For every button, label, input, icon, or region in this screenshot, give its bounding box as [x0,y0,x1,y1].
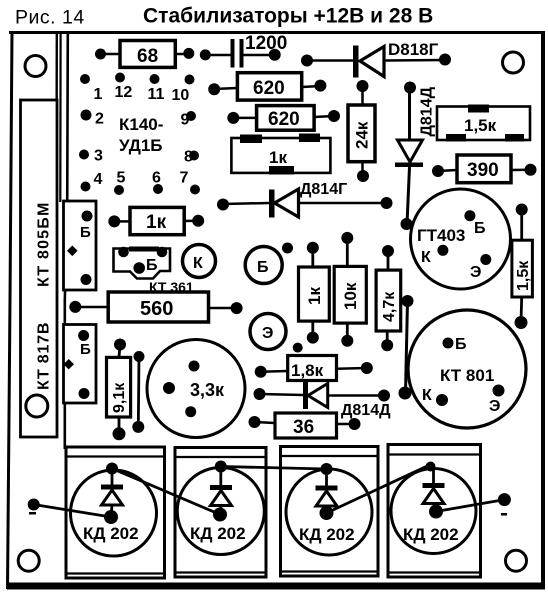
resistor 620 (lower) [227,106,340,131]
resistor 1.5k (top right, pad style) [437,105,530,142]
svg-text:Рис. 14: Рис. 14 [15,7,85,29]
svg-text:9: 9 [181,112,190,129]
node E circle [250,314,286,350]
mounting hole top-right [503,52,524,73]
svg-text:10к: 10к [341,282,360,310]
svg-text:6: 6 [152,170,161,187]
resistor 390 [432,155,537,183]
svg-text:Б: Б [474,220,486,237]
svg-text:1: 1 [94,86,103,103]
node dot above 1.8k [293,343,303,353]
resistor 68 [95,41,211,68]
rectifier block D2 [175,448,266,578]
svg-text:Б: Б [455,336,467,353]
svg-text:24к: 24к [353,121,372,149]
svg-text:Стабилизаторы +12В и 28 В: Стабилизаторы +12В и 28 В [143,5,433,28]
pad rectangle B2 (base pad of KT817) [63,325,96,404]
resistor 1k (left) [108,207,204,234]
transistor GT403 [411,189,511,289]
svg-text:3: 3 [94,148,103,165]
svg-text:КД 202: КД 202 [190,524,246,543]
transistor KT805BM / KT817V body outline [21,100,58,437]
svg-text:Э: Э [470,264,481,281]
svg-text:К: К [422,387,432,404]
svg-text:Б: Б [146,257,158,274]
svg-text:68: 68 [137,46,158,67]
svg-text:10: 10 [172,87,190,104]
resistor 1k vertical [299,242,330,344]
diode D814G [217,181,393,218]
svg-text:4: 4 [94,171,103,188]
svg-text:Э: Э [262,325,273,342]
svg-text:4,7к: 4,7к [381,291,398,322]
svg-text:9,1к: 9,1к [111,382,128,413]
svg-text:1,8к: 1,8к [291,361,324,380]
resistor 560 [69,292,242,322]
svg-text:КТ 801: КТ 801 [440,366,494,385]
transistor KT361 pad outline [114,247,194,296]
wire left dot to D1 center [28,499,111,518]
rectifier block D3 [281,447,379,577]
svg-text:D818Г: D818Г [388,40,439,59]
IC K140-UD1B pin field [79,73,200,196]
svg-text:КД 202: КД 202 [403,525,459,544]
resistor 1.5k vertical (right) [512,204,533,330]
svg-text:2: 2 [95,111,104,128]
wire vertical trace x60 [59,33,61,202]
wire vertical trace x67 [65,33,68,449]
wire vertical trace x57 [55,33,58,437]
trimmer 3.3k [147,340,245,438]
diode D818G [301,40,451,78]
svg-text:К: К [421,249,431,266]
svg-text:КТ 817В: КТ 817В [36,322,53,390]
rectifier block D1 [66,447,165,578]
resistor 4.7k vertical [376,245,401,351]
svg-text:1к: 1к [269,148,287,167]
mounting hole bottom-right [506,550,527,571]
transistor hole [26,395,48,417]
svg-text:11: 11 [148,86,165,103]
svg-text:Д814Д: Д814Д [419,86,436,136]
svg-text:Д814Д: Д814Д [341,402,391,419]
node B circle [245,247,282,284]
svg-text:Б: Б [80,224,91,241]
svg-text:ГТ403: ГТ403 [417,226,465,245]
svg-text:12: 12 [115,84,133,101]
mounting hole top-left [25,56,46,77]
svg-text:390: 390 [467,160,499,181]
resistor 24k vertical [348,80,375,182]
node K circle [183,245,216,278]
svg-text:Д814Г: Д814Г [300,181,347,198]
wire vertical to KT801 [399,295,414,400]
svg-text:3,3к: 3,3к [190,380,225,400]
svg-text:Б: Б [257,259,269,276]
diode D814D vertical (near GT403) [395,82,436,231]
svg-text:1,5к: 1,5к [464,116,497,135]
svg-text:КТ 805БМ: КТ 805БМ [36,201,53,287]
resistor 10k vertical [334,232,366,347]
svg-text:5: 5 [117,170,126,187]
svg-text:1к: 1к [146,212,167,233]
svg-text:620: 620 [253,78,285,99]
wire D1 top to D2 center [112,469,220,515]
wire D2 top to D3 top [221,467,327,470]
svg-text:Э: Э [489,398,500,415]
rectifier block D4 [388,445,481,578]
svg-text:КД 202: КД 202 [83,524,139,543]
svg-text:К: К [193,255,203,272]
svg-text:К140-: К140- [119,115,163,134]
svg-text:КД 202: КД 202 [299,525,355,544]
svg-text:620: 620 [268,109,300,130]
resistor 36 [249,413,361,438]
resistor 9.1k vertical [107,339,131,441]
resistor 1k (pad style, top middle) [231,134,330,175]
node dot near B circle [282,243,293,254]
svg-text:УД1Б: УД1Б [119,136,163,155]
resistor 620 (upper) [208,73,326,100]
pad rectangle B1 (base pad of KT805) [64,201,97,290]
resistor 1.8k [255,356,373,381]
svg-text:36: 36 [293,417,314,438]
svg-text:Б: Б [80,341,91,358]
svg-text:8: 8 [184,149,193,166]
svg-text:1к: 1к [305,287,324,305]
mounting hole bottom-left [18,550,39,571]
diode D814D horizontal [254,382,392,419]
capacitor 1200 [205,33,287,68]
svg-text:1,5к: 1,5к [515,260,532,291]
svg-text:560: 560 [140,298,173,320]
svg-text:7: 7 [180,170,189,187]
svg-text:1200: 1200 [245,33,287,54]
wire D3 center to D4 top [327,465,431,514]
wire vertical with end dots x139 [132,351,144,433]
wire D4 center to right dot [436,493,511,515]
transistor KT801 [408,310,526,428]
